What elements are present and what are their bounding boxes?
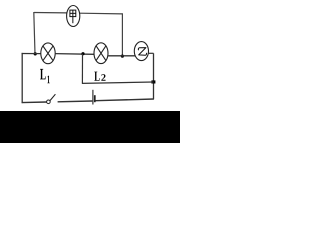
label L2 letter L — [94, 72, 99, 81]
wire bottom: switch to battery — [58, 100, 93, 103]
wire middle row: lamp L2 to component Z — [108, 55, 135, 57]
wire top horizontal right segment — [80, 12, 123, 15]
wire bypass horizontal to right rail — [82, 82, 154, 83]
black bar (censored strip at bottom) — [0, 111, 180, 143]
switch lever (open) — [50, 94, 55, 100]
lamp L1 (circle with X) — [41, 43, 55, 64]
lamp L2 (circle with X) — [94, 43, 108, 64]
wire bypass vertical drop from node between L1 and L2 — [81, 54, 83, 84]
wire left rail vertical — [21, 53, 23, 103]
battery long plate (+) — [92, 90, 94, 105]
label L1 letter L — [40, 69, 46, 79]
wire middle row: left rail to lamp L1 — [22, 53, 42, 55]
wire right vertical of meter loop — [121, 13, 123, 56]
wire bottom: battery to right rail — [96, 99, 154, 101]
square junction dot on right rail (bypass wire joins) — [151, 80, 155, 83]
wire left vertical of meter loop — [34, 12, 35, 54]
junction dot at meter left branch on main wire — [34, 52, 37, 55]
wire bottom: left rail to switch — [22, 101, 47, 104]
wire top horizontal left segment — [34, 12, 67, 14]
label L1 subscript 1 — [47, 76, 49, 84]
switch pivot circle — [47, 100, 51, 104]
wire right rail vertical — [153, 53, 155, 99]
meter (circle with 甲 grid symbol) — [67, 6, 80, 27]
wire from component Z to right rail — [148, 52, 153, 54]
component Z (circle with Z symbol) — [134, 42, 148, 61]
junction dot at meter right branch on main wire — [121, 55, 124, 58]
battery short plate (-) — [94, 95, 96, 102]
wire middle row: lamp L1 to lamp L2 — [55, 53, 94, 56]
label L2 digit 2 — [101, 74, 105, 81]
junction dot (node between L1 and L2, top of bypass wire) — [81, 52, 84, 55]
